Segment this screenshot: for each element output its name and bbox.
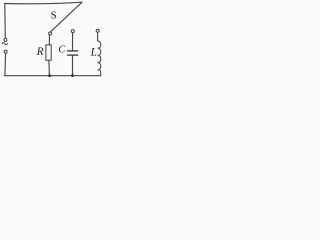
wire C branch stem lower — [72, 56, 74, 76]
AC source tilde — [2, 43, 8, 45]
source terminal lower — [4, 50, 7, 53]
source terminal upper — [4, 38, 7, 41]
capacitor C plate lower — [67, 54, 78, 56]
switch blade S — [50, 2, 82, 32]
inductor L coil — [98, 41, 101, 76]
resistor R box — [46, 45, 51, 60]
wire R branch stem lower — [48, 60, 51, 75]
svg-text:R: R — [36, 46, 44, 58]
wire top rail — [5, 2, 83, 4]
svg-text:L: L — [90, 46, 97, 58]
wire left rail lower — [4, 53, 7, 75]
wire L branch stem upper — [97, 33, 99, 42]
wire R branch stem upper — [48, 35, 50, 45]
wire C branch stem upper — [72, 33, 74, 51]
switch contact node (R top) — [49, 32, 52, 35]
background — [0, 0, 115, 84]
node L top — [96, 29, 99, 32]
junction dot C-bottom — [71, 74, 74, 77]
junction dot R-bottom — [48, 74, 51, 77]
node C top — [71, 30, 74, 33]
capacitor C plate upper — [67, 50, 78, 52]
wire bottom rail — [4, 75, 100, 77]
svg-text:C: C — [58, 44, 65, 55]
svg-text:S: S — [51, 9, 57, 21]
wire left rail upper — [4, 3, 7, 38]
